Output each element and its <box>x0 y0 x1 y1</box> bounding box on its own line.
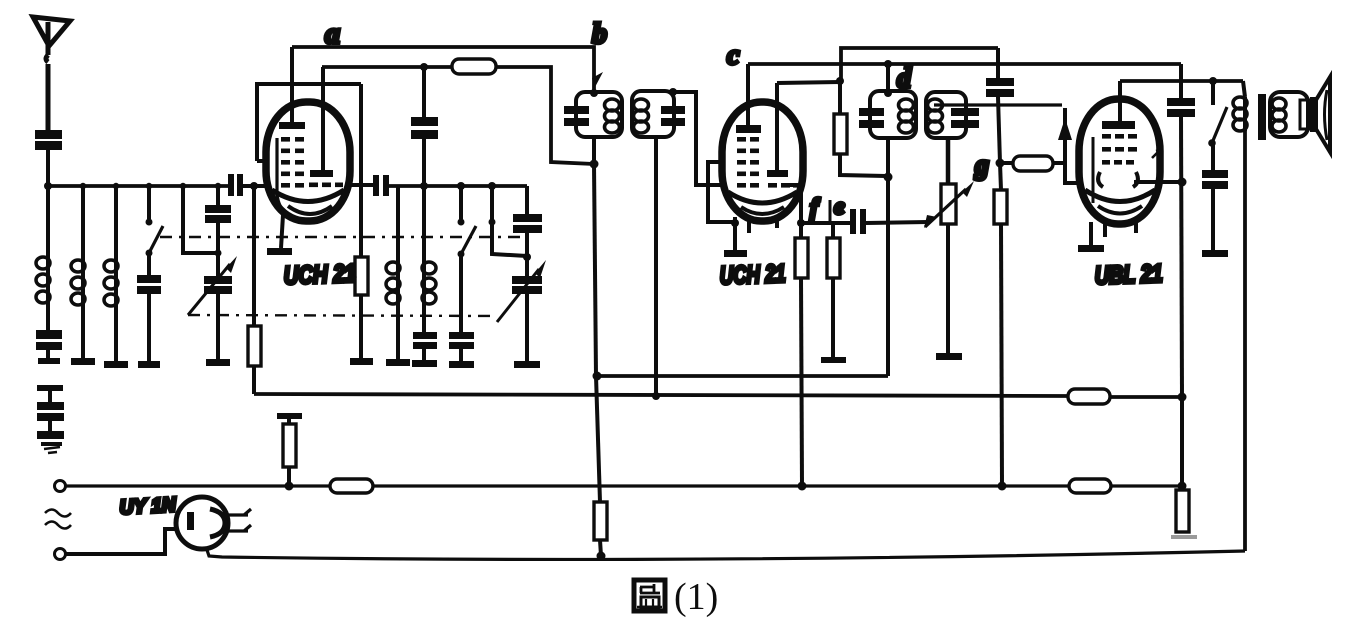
resistor IFT1 return <box>594 376 607 561</box>
wire IFT2 sec top tap <box>934 103 1062 106</box>
node IFT2 top <box>884 60 892 97</box>
wire <box>81 186 85 258</box>
transformer core <box>1258 94 1266 140</box>
node heater taps <box>798 482 1007 491</box>
dash-dot gang line 1 <box>160 236 527 238</box>
svg-text:c: c <box>727 40 740 71</box>
resistor screen Ra <box>355 257 368 358</box>
wire V3 screen <box>1134 180 1182 184</box>
tube UBL21 V3 envelope <box>1079 99 1160 224</box>
tube V1 heptode anode <box>279 47 305 129</box>
rectifier pins <box>228 509 251 531</box>
wire triode anode V1 <box>322 65 452 69</box>
dash-dot gang line 2 <box>188 315 497 316</box>
node f junction <box>797 219 805 227</box>
capacitor C osc top <box>411 67 438 186</box>
IFT1 secondary box <box>632 91 685 137</box>
wire tap link <box>180 183 218 253</box>
wire screen dropper column <box>1167 64 1195 491</box>
tube V1 bottom arcs <box>272 190 344 214</box>
tube UCH21 V1 envelope <box>266 102 350 221</box>
tube V1 cathode <box>267 138 292 255</box>
coil osc L4 <box>386 186 400 359</box>
capacitor padder <box>513 186 542 276</box>
resistor Rh horizontal <box>1000 156 1065 171</box>
wire V2 triode anode to d <box>777 48 998 85</box>
tube UCH21 V2 envelope <box>722 102 803 221</box>
wire input bus <box>48 184 228 188</box>
speaker coil frame <box>1270 92 1308 137</box>
resistor Rd <box>834 82 886 176</box>
terminal AC bottom <box>55 549 66 560</box>
tube V1 triode grid dashes <box>309 183 343 188</box>
wire B+ bottom return <box>206 547 1245 559</box>
svg-text:UCH 21: UCH 21 <box>283 260 356 290</box>
tube V2 pin stubs <box>749 221 777 233</box>
ground Re <box>821 357 846 363</box>
svg-text:UCH 21: UCH 21 <box>719 260 786 290</box>
wire V1 screen box <box>257 84 361 257</box>
tube V3 cathode pin <box>1078 222 1104 252</box>
node grid junction <box>250 182 258 190</box>
node IFT1 top <box>590 89 598 97</box>
wire IFT1 sec top to V2 grid <box>669 88 722 185</box>
wire V3 anode to output <box>1120 79 1243 83</box>
tube V2 triode anode <box>767 83 788 177</box>
tube V3 beam plates <box>1098 172 1138 187</box>
node heater R <box>285 482 294 491</box>
wire padder link <box>488 182 527 256</box>
ground V2 cathode <box>724 250 747 257</box>
wire c <box>748 62 1181 66</box>
rectifier UY1N tube <box>176 497 228 549</box>
svg-text:UY 1N: UY 1N <box>119 494 177 519</box>
ground Ra <box>350 358 373 365</box>
wire e line <box>801 221 850 225</box>
wire <box>114 186 118 258</box>
antenna <box>33 17 70 130</box>
capacitor stack below L1 <box>36 305 62 364</box>
svg-text:UBL 21: UBL 21 <box>1094 260 1163 290</box>
node AVC left <box>593 372 602 381</box>
resistor Rf <box>795 223 808 486</box>
variable capacitor C-tune1 <box>188 256 237 359</box>
tube V3 small arrow <box>1152 150 1160 158</box>
wire AC bottom to rectifier <box>66 529 177 554</box>
caption chinese <box>634 580 665 611</box>
wire AVC arrow <box>1058 108 1083 183</box>
node antenna junction <box>44 182 52 190</box>
tube V3 anode <box>1102 81 1135 129</box>
capacitor below S1 <box>137 253 161 361</box>
capacitor lower stack to ground <box>37 385 64 439</box>
resistor det load <box>994 163 1007 486</box>
ground pot g <box>936 353 962 360</box>
speaker driver <box>1300 97 1316 132</box>
coil osc L5 <box>422 186 436 304</box>
bus AVC y377 <box>597 374 888 378</box>
wire V1 triode grid out <box>350 183 373 187</box>
wire a <box>292 47 594 92</box>
ground <box>41 442 62 453</box>
tube V3 internal grid lead <box>1092 137 1095 203</box>
coil L2 <box>71 258 85 358</box>
svg-text:g: g <box>974 150 989 181</box>
resistor heater inline left <box>330 479 1069 493</box>
capacitor below S2 <box>449 254 474 361</box>
wire IFT1 sec bottom <box>652 137 660 400</box>
node tap3 <box>113 183 119 189</box>
ground S2 <box>449 361 474 368</box>
terminal AC top <box>55 481 66 492</box>
wire <box>46 186 50 255</box>
speaker horn <box>1316 77 1330 152</box>
switch tone <box>1208 77 1227 147</box>
resistor bottom right <box>1171 486 1197 539</box>
wire V2 triode grid down <box>788 185 801 223</box>
wire label divider <box>829 200 832 222</box>
arrow into IFT1 <box>592 72 603 89</box>
tube V2 grid dashes <box>737 137 759 188</box>
ground C-tune2 <box>514 361 540 368</box>
tube V3 bottom arcs <box>1085 190 1155 214</box>
node tap2 <box>80 183 86 189</box>
capacitor below L5 <box>413 299 437 360</box>
ground tone <box>1202 250 1228 257</box>
IFT1 primary box <box>564 92 622 137</box>
coil L3 <box>104 258 118 361</box>
coil L1 <box>36 255 50 305</box>
potentiometer g <box>925 138 974 353</box>
node IFT1 bottom junction <box>590 137 599 376</box>
wire V2 cathode box <box>708 162 739 250</box>
tube V2 triode grid dashes <box>768 183 800 188</box>
ground L2 <box>71 358 95 365</box>
tube V2 bottom arcs <box>728 192 797 214</box>
svg-text:a: a <box>325 17 340 50</box>
ground L5 <box>412 360 437 367</box>
capacitor grid coupling C-g1 <box>228 174 266 196</box>
capacitor detector C <box>986 48 1014 163</box>
ground L3 <box>104 361 128 368</box>
capacitor antenna series <box>35 130 62 186</box>
resistor grid leak R1 <box>248 186 261 394</box>
switch S1 <box>146 183 164 257</box>
IFT2 primary box <box>859 91 916 138</box>
tube V1 grid dashes <box>281 137 304 188</box>
node <box>420 63 428 71</box>
bus B+ screen y396 <box>254 389 1182 404</box>
variable capacitor C-tune2 <box>497 260 546 361</box>
AC symbol <box>45 510 71 529</box>
tube V2 heptode anode <box>736 64 761 133</box>
output transformer primary <box>1233 81 1247 551</box>
resistor Re <box>827 223 840 357</box>
ground L4 <box>386 359 410 366</box>
ground S1 <box>138 361 160 368</box>
node det junction <box>996 159 1005 168</box>
IFT2 secondary box <box>926 92 979 138</box>
tube V3 pin stubs <box>1105 222 1136 237</box>
resistor heater vertical <box>277 413 302 486</box>
tube V1 triode anode <box>310 67 333 177</box>
capacitor trimmer top <box>205 183 231 276</box>
tube V3 grid dashes <box>1102 134 1137 165</box>
svg-text:b: b <box>592 17 607 50</box>
svg-text:(1): (1) <box>674 576 718 618</box>
capacitor Ce <box>850 209 937 234</box>
ground C-tune1 <box>206 359 230 366</box>
resistor heater inline right <box>1069 479 1182 493</box>
resistor plate R2 <box>452 59 594 164</box>
wire IFT2 primary bottom <box>884 138 893 376</box>
node osc tap <box>420 182 428 190</box>
capacitor tone <box>1202 143 1228 250</box>
wire heater bus <box>66 484 330 487</box>
capacitor osc coupling C-g2 <box>373 175 527 196</box>
svg-text:e: e <box>834 194 845 220</box>
switch S2 <box>457 182 476 258</box>
